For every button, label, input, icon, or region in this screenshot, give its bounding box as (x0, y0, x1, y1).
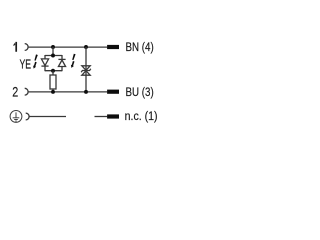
node on bottom rail (51, 69, 55, 73)
terminal bar BN (107, 45, 119, 49)
resistor R1 (50, 75, 56, 89)
svg-text:YE: YE (20, 56, 32, 71)
wire line 2 (28, 91, 107, 93)
ground symbol bar 3 (15, 120, 16, 122)
suppressor diode Z1 lower triangle (82, 71, 90, 76)
LED D2 cathode bar (top) (58, 58, 65, 60)
pin 1 contact (25, 44, 28, 51)
wire line 1 (28, 46, 107, 48)
ground symbol bar 1 (13, 117, 20, 119)
node on line 1 feeding suppressor (84, 45, 88, 49)
node on line 2 below suppressor (84, 90, 88, 94)
ground wire (29, 116, 66, 118)
LED D1 (yellow) triangle pointing down (41, 59, 48, 66)
svg-text:BN (4): BN (4) (126, 40, 154, 54)
pin 2 contact (25, 88, 28, 95)
ground contact (26, 113, 29, 120)
svg-text:2: 2 (12, 84, 18, 100)
node on line 1 feeding LED block (51, 45, 55, 49)
wire from line 1 down to LED rail (52, 47, 54, 56)
wire below D1 (44, 66, 46, 71)
terminal bar BU (107, 90, 119, 94)
svg-text:n.c. (1): n.c. (1) (125, 109, 158, 123)
LED block bottom rail (45, 70, 62, 72)
wire right branch drop (61, 55, 63, 59)
ground symbol bar 2 (14, 119, 18, 121)
wire below D2 (61, 67, 63, 72)
LED D2 triangle pointing up (58, 60, 65, 67)
wire left branch drop (44, 55, 46, 59)
svg-text:BU (3): BU (3) (126, 85, 154, 99)
LED D1 cathode bar (41, 65, 48, 67)
LED flash arrow left (34, 54, 37, 60)
ground symbol stem (15, 112, 17, 117)
n.c. stub wire (95, 116, 108, 118)
wire rail to resistor (52, 71, 54, 75)
ground pin: PE circle (10, 111, 22, 123)
LED block top rail (45, 55, 62, 57)
LED flash arrow right (72, 54, 75, 60)
node on line 2 below resistor (51, 90, 55, 94)
terminal bar n.c. (107, 114, 119, 118)
node on top rail (51, 54, 55, 58)
wire resistor to line 2 (52, 89, 54, 92)
wire suppressor vertical (85, 47, 87, 92)
suppressor diode Z1 upper triangle (82, 66, 90, 71)
suppressor diode Z1 center bar with zener wings (81, 69, 91, 72)
pin 1 label (13, 42, 17, 52)
